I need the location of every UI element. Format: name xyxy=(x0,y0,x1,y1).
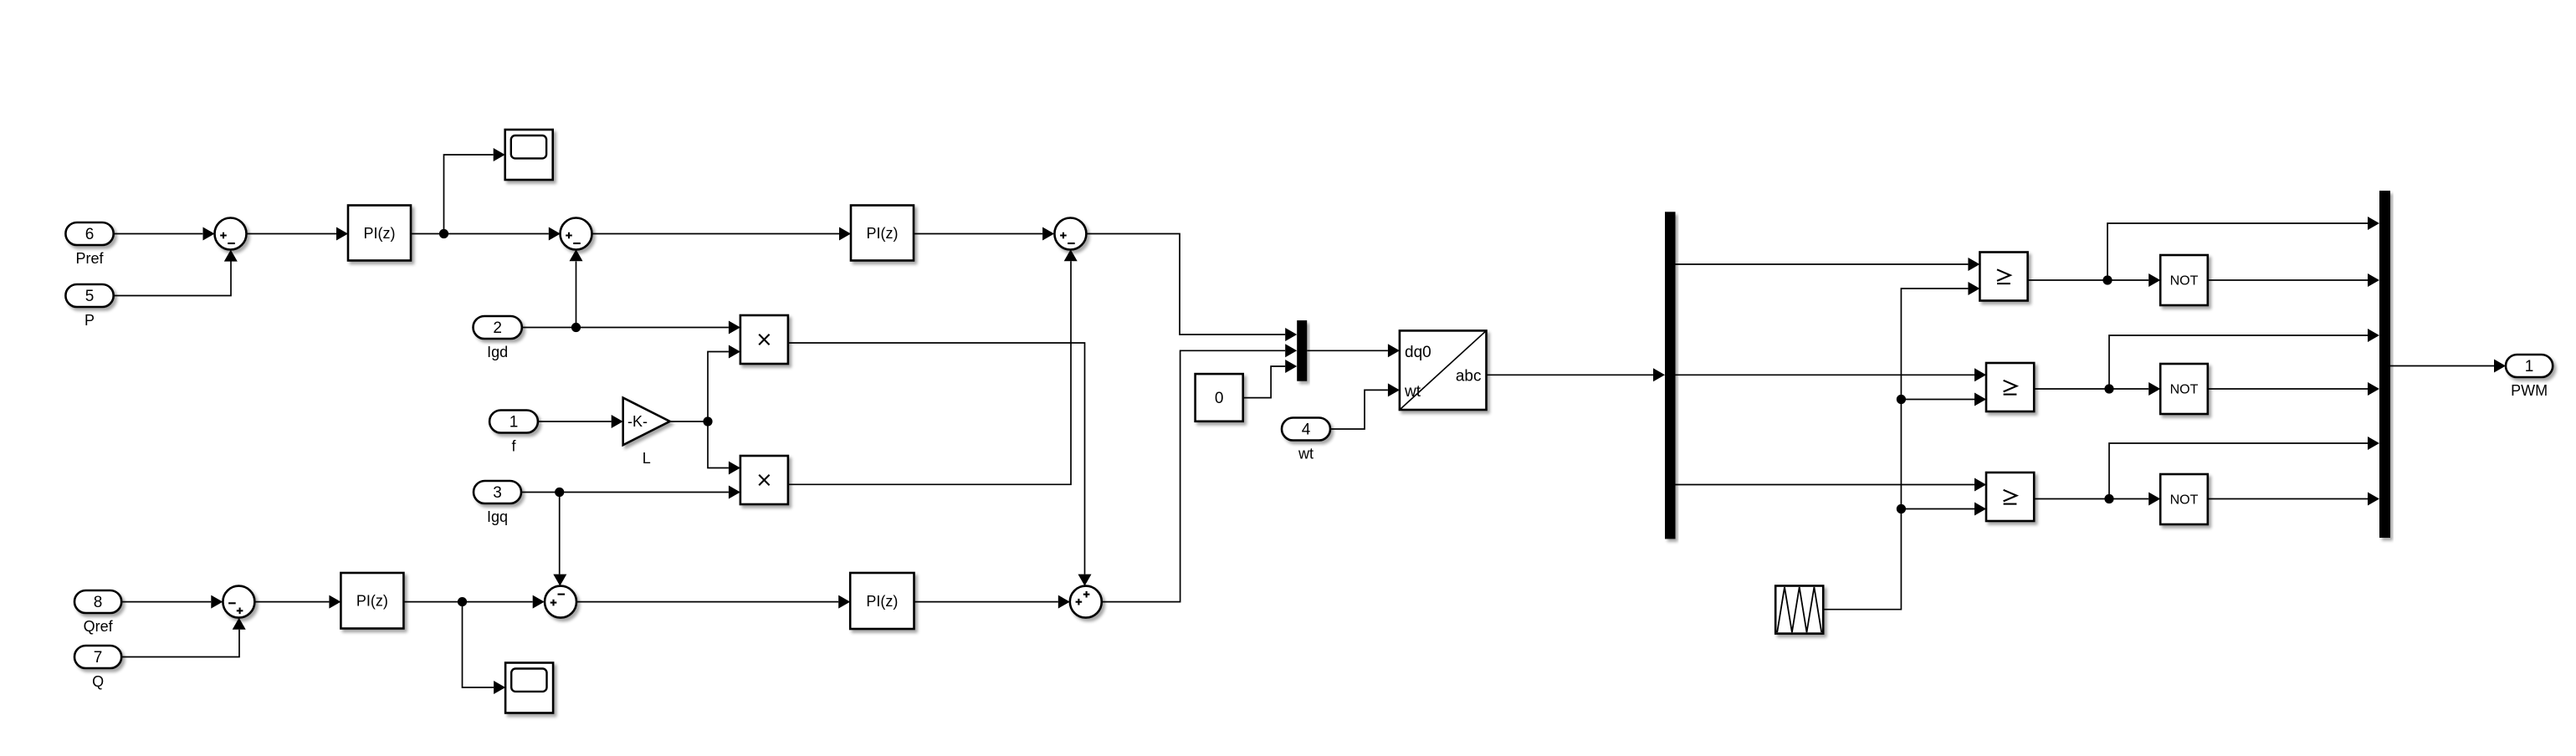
wire sum3 to mux1 input1 xyxy=(1086,234,1297,342)
wire port6 to sum1 xyxy=(114,227,215,241)
wire gain L output to junction xyxy=(670,416,713,426)
output port 1 (PWM) xyxy=(2506,355,2553,399)
svg-text:3: 3 xyxy=(493,484,502,502)
wire port2 Igd to product1 input1 xyxy=(522,321,740,335)
wire relop1 branch to mux2 input1 xyxy=(2107,217,2379,280)
wire relop2 output to NOT2 xyxy=(2035,382,2161,396)
wire NOT1 output to mux2 input2 xyxy=(2208,273,2379,287)
sum block Sum5 (q-axis) xyxy=(545,586,576,618)
wire NOT3 output to mux2 input6 xyxy=(2208,493,2379,506)
wire carrier: triangle wave to relop1 input2 xyxy=(1823,282,1979,610)
input port 7 (Q) xyxy=(74,646,121,690)
wire Igd junction up to sum2 lower input xyxy=(570,249,583,327)
input port 2 (Igd) xyxy=(474,316,522,360)
constant block 0 xyxy=(1196,374,1243,421)
wire PI(z)4 to sum6 xyxy=(914,595,1070,609)
svg-text:abc: abc xyxy=(1456,368,1482,386)
input port 6 (Pref) xyxy=(65,222,113,267)
logical operator NOT3 xyxy=(2160,474,2208,524)
wire port1 f to gain L xyxy=(538,415,623,428)
input port 4 (wt) xyxy=(1282,418,1330,462)
wire junction down to scope2 xyxy=(463,602,506,694)
svg-text:PWM: PWM xyxy=(2511,382,2548,399)
wire carrier junction to relop3 input2 xyxy=(1901,503,1986,516)
wire PI(z)2 to sum3 xyxy=(914,227,1054,241)
wire sum5 to PI(z)4 xyxy=(576,595,850,609)
PI controller PI(z)3 xyxy=(341,573,403,629)
wire demux out1 to relop1 input1 xyxy=(1676,258,1980,271)
repeating sequence (triangle carrier) block xyxy=(1775,586,1823,634)
wire port3 Igq to product2 input2 xyxy=(521,486,740,499)
svg-text:2: 2 xyxy=(493,319,502,337)
wire Igq junction down to sum5 upper input xyxy=(553,493,566,586)
mux Mux2 (6-in) xyxy=(2379,191,2390,538)
wire demux out2 to relop2 input1 xyxy=(1676,368,1987,381)
relational operator >= (phase c) xyxy=(1986,472,2034,521)
wire dq0 output to demux xyxy=(1487,368,1666,381)
sum block Sum2 (d-axis) xyxy=(561,218,592,250)
svg-text:Pref: Pref xyxy=(76,250,105,267)
wire PI(z)1 to sum2, junction to scope1 xyxy=(411,227,561,241)
svg-text:PI(z): PI(z) xyxy=(867,225,899,242)
wire mux1 output to dq0 block xyxy=(1307,344,1400,357)
svg-text:1: 1 xyxy=(510,414,519,432)
svg-text:NOT: NOT xyxy=(2170,383,2199,397)
wire NOT2 output to mux2 input4 xyxy=(2208,382,2379,396)
wire sum1 to PI(z)1 xyxy=(247,227,349,241)
svg-text:P: P xyxy=(85,312,95,329)
svg-text:5: 5 xyxy=(85,288,95,305)
svg-text:Igd: Igd xyxy=(487,344,508,360)
logical operator NOT2 xyxy=(2160,364,2208,414)
wire mux2 output to PWM port xyxy=(2390,360,2506,373)
wire product2 output to sum3 lower input xyxy=(788,249,1078,484)
wire product1 output to sum6 upper input xyxy=(788,343,1092,586)
sum block Sum6 (q-axis decoupling) xyxy=(1070,586,1102,618)
PI controller PI(z)1 xyxy=(348,206,411,261)
svg-text:wt: wt xyxy=(1404,383,1421,401)
wire gain junction up to product1 input2 xyxy=(708,345,740,422)
sum block Sum1 (Pref-P) xyxy=(215,218,247,250)
svg-text:0: 0 xyxy=(1215,390,1224,407)
scope block Scope2 xyxy=(505,663,553,713)
svg-text:7: 7 xyxy=(94,649,103,667)
input port 5 (P) xyxy=(65,284,113,329)
relational operator >= (phase a) xyxy=(1979,253,2027,301)
wire PI(z)3 to sum5, junction to scope2 xyxy=(403,595,544,609)
relational operator >= (phase b) xyxy=(1986,363,2034,411)
demux Demux (3-out) xyxy=(1665,212,1676,539)
wire relop3 branch to mux2 input5 xyxy=(2109,437,2379,499)
sum block Sum3 (d-axis decoupling) xyxy=(1054,218,1086,250)
svg-text:8: 8 xyxy=(94,594,103,611)
product block Product1 xyxy=(740,315,788,364)
svg-text:L: L xyxy=(643,450,651,467)
svg-text:Qref: Qref xyxy=(84,618,114,635)
PI controller PI(z)4 xyxy=(850,573,914,629)
svg-text:NOT: NOT xyxy=(2170,493,2199,508)
svg-text:PI(z): PI(z) xyxy=(356,593,388,610)
PI controller PI(z)2 xyxy=(851,206,914,261)
wire relop1 output to NOT1 xyxy=(2028,273,2161,287)
svg-text:Q: Q xyxy=(92,673,104,690)
wire sum4 to PI(z)3 xyxy=(255,595,341,609)
svg-text:-K-: -K- xyxy=(627,413,648,430)
product block Product2 xyxy=(740,456,788,504)
sum block Sum4 (Q-Qref) xyxy=(223,586,254,618)
wire gain junction down to product2 input1 xyxy=(708,421,740,475)
svg-text:wt: wt xyxy=(1298,446,1314,462)
gain block L (-K-) xyxy=(623,398,670,467)
mux Mux1 (3-in) xyxy=(1297,320,1307,381)
input port 3 (Igq) xyxy=(474,481,521,525)
wire relop2 branch to mux2 input3 xyxy=(2109,329,2379,389)
svg-text:6: 6 xyxy=(85,226,95,243)
wire port8 Qref to sum4 xyxy=(121,595,223,609)
svg-text:Igq: Igq xyxy=(487,508,508,525)
logical operator NOT1 xyxy=(2160,255,2208,305)
wire junction to scope1 xyxy=(444,148,505,234)
svg-text:dq0: dq0 xyxy=(1405,344,1431,361)
wire relop3 output to NOT3 xyxy=(2035,493,2161,506)
wire port4 wt to dq0 block wt input xyxy=(1330,383,1400,429)
svg-text:PI(z): PI(z) xyxy=(364,225,396,242)
wire demux out3 to relop3 input1 xyxy=(1676,478,1987,492)
wire port5 to sum1 lower input xyxy=(114,250,238,296)
wire constant0 to mux1 input3 xyxy=(1243,360,1298,398)
scope block Scope1 xyxy=(505,130,553,180)
wire carrier junction to relop2 input2 xyxy=(1901,393,1986,406)
wire sum2 to PI(z)2 xyxy=(592,227,851,241)
svg-text:4: 4 xyxy=(1302,421,1311,439)
wire port7 Q to sum4 lower input xyxy=(121,618,246,657)
svg-text:1: 1 xyxy=(2525,358,2534,375)
wire sum6 to mux1 input2 xyxy=(1102,344,1297,601)
input port 1 (f) xyxy=(489,411,538,455)
svg-text:PI(z): PI(z) xyxy=(866,593,898,610)
dq0 to abc transform block xyxy=(1400,330,1487,410)
svg-text:NOT: NOT xyxy=(2170,274,2199,289)
input port 8 (Qref) xyxy=(74,590,121,635)
